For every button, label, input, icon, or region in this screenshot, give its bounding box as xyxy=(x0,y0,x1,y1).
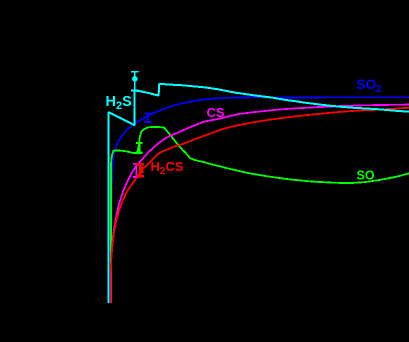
magenta CS error bar xyxy=(133,164,140,177)
red data marker xyxy=(140,167,143,174)
blue SO2 error bar xyxy=(144,113,152,122)
cyan H2S error bar xyxy=(131,72,138,91)
SO curve (green) xyxy=(111,127,409,303)
H2CS curve (red) xyxy=(111,108,409,303)
svg-text:CS: CS xyxy=(207,105,225,120)
svg-text:SO: SO xyxy=(357,169,375,183)
H2S curve (cyan) xyxy=(109,84,409,303)
CS curve (magenta) xyxy=(111,105,409,303)
cyan data point xyxy=(132,76,138,82)
SO2 curve (blue) xyxy=(111,97,409,303)
green SO error bar xyxy=(136,143,143,153)
red H2CS error bar xyxy=(137,164,145,176)
